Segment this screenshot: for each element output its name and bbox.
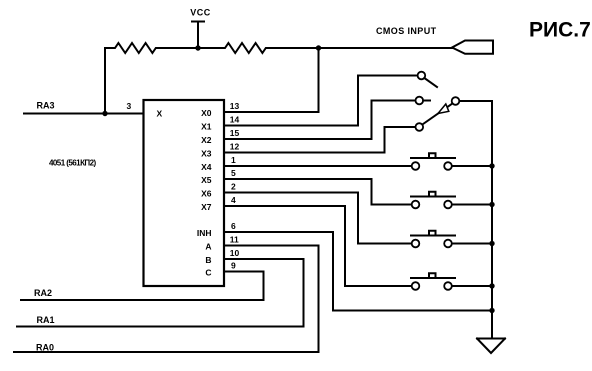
svg-text:12: 12 — [230, 142, 240, 152]
svg-text:VCC: VCC — [190, 8, 211, 18]
svg-text:11: 11 — [230, 235, 239, 245]
svg-text:CMOS INPUT: CMOS INPUT — [376, 26, 437, 36]
svg-text:4051 (561КП2): 4051 (561КП2) — [49, 159, 97, 168]
svg-text:RA0: RA0 — [36, 343, 54, 353]
svg-text:X0: X0 — [201, 108, 212, 118]
svg-text:RA3: RA3 — [37, 101, 55, 111]
svg-text:B: B — [205, 255, 211, 265]
svg-text:X4: X4 — [201, 162, 212, 172]
svg-text:1: 1 — [231, 155, 236, 165]
svg-text:X6: X6 — [201, 189, 212, 199]
svg-text:X3: X3 — [201, 149, 212, 159]
svg-text:6: 6 — [231, 221, 236, 231]
svg-text:5: 5 — [231, 168, 236, 178]
svg-text:A: A — [205, 242, 211, 252]
svg-text:C: C — [205, 268, 211, 278]
svg-text:RA1: RA1 — [37, 315, 55, 325]
svg-text:10: 10 — [230, 248, 240, 258]
svg-text:X1: X1 — [201, 122, 212, 132]
svg-text:2: 2 — [231, 182, 236, 192]
svg-text:X5: X5 — [201, 175, 212, 185]
svg-text:4: 4 — [231, 195, 236, 205]
svg-text:RA2: RA2 — [34, 288, 52, 298]
svg-text:X7: X7 — [201, 202, 212, 212]
svg-text:13: 13 — [230, 101, 240, 111]
svg-text:РИС.7: РИС.7 — [529, 19, 591, 42]
svg-text:14: 14 — [230, 115, 240, 125]
svg-text:X2: X2 — [201, 135, 212, 145]
svg-text:X: X — [157, 109, 163, 119]
svg-text:15: 15 — [230, 128, 240, 138]
svg-text:9: 9 — [231, 261, 236, 271]
svg-text:3: 3 — [127, 101, 132, 111]
svg-text:INH: INH — [197, 228, 212, 238]
